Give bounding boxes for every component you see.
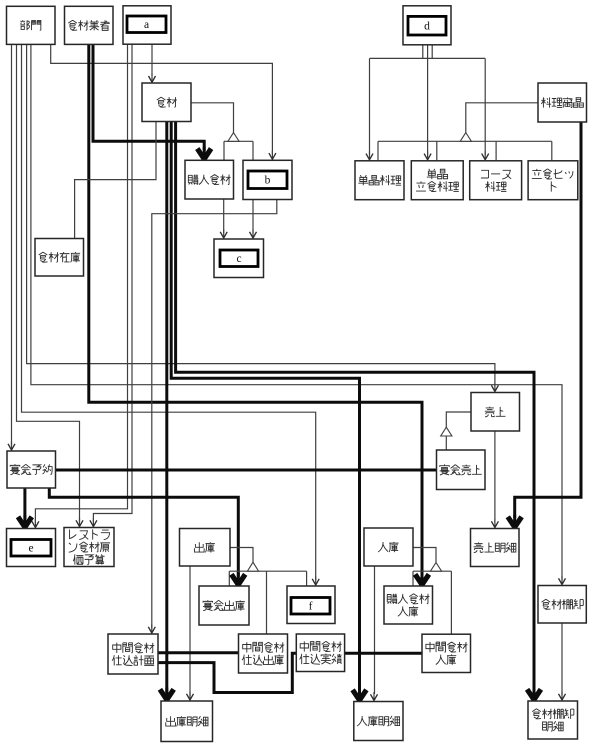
arrowhead (thin) into b (269, 151, 276, 160)
wire 出庫→出庫明細 (189, 566, 191, 697)
wire 宴会予約→e (bold) (23, 488, 26, 519)
wire 出庫 subtype elbow (230, 548, 253, 563)
arrowhead (thin) into コース料理 (482, 151, 489, 160)
wire subtype drop→立食セット (551, 141, 553, 161)
entity box c (214, 239, 264, 278)
arrowhead (thin) into 食材棚卸 (559, 576, 566, 585)
entity box 中間食材仕込出庫 (239, 634, 288, 673)
svg-text:b: b (265, 175, 271, 187)
wire 入庫 subtype elbow (413, 548, 436, 563)
wire b→c (252, 200, 254, 234)
arrowhead (thin) into 出庫明細 (187, 692, 194, 701)
arrowhead (thin) into レストラン食材原価予算 left (76, 518, 83, 527)
entity box 食材 (142, 83, 191, 122)
arrowhead (bold) into 食材棚卸明細 (527, 688, 541, 700)
entity box 食材棚卸明細 (528, 701, 578, 739)
wire subtype drop→f (306, 571, 308, 586)
wire 食材→食材棚卸明細 (bold) (176, 122, 534, 691)
wire 入庫 subtype base (413, 570, 451, 572)
wire subtype drop→単品立食料理 (436, 141, 438, 161)
entity box 中間食材入庫 (422, 634, 471, 672)
arrowhead (bold) into 購入食材入庫 (415, 573, 429, 585)
arrowhead (bold) into 売上明細 (508, 515, 522, 527)
wire d stub left (422, 43, 424, 58)
svg-text:e: e (28, 543, 33, 555)
arrowhead (thin) into 単品立食料理 (424, 151, 431, 160)
arrowhead (thin) into レストラン食材原価予算 right (90, 518, 97, 527)
arrowhead (thin) into f (312, 577, 319, 586)
arrowhead (bold) into 宴会出庫 (231, 573, 245, 585)
wire 購入食材→c (223, 199, 225, 233)
wire 宴会予約→宴会出庫 (bold) (49, 488, 238, 577)
subtype triangle 食材 hierarchy (228, 133, 239, 142)
wire 料理商品 subtype base (378, 140, 552, 142)
entity box 宴会出庫 (199, 586, 249, 625)
wire a→レストラン食材原価予算 (via y514) (93, 43, 132, 522)
arrowhead (thin) into 中間食材仕込計画 (148, 625, 155, 634)
svg-text:c: c (236, 253, 241, 265)
subtype triangle 売上 hierarchy (441, 427, 452, 436)
entity box 食材棚卸 (538, 586, 586, 624)
entity box 購入食材入庫 (384, 586, 433, 624)
wire 食材→食材在庫 (75, 122, 156, 239)
entity box 中間食材仕込計画 (108, 634, 158, 674)
wire 食材→入庫明細 (bold) (171, 122, 359, 693)
entity box 出庫 (180, 529, 231, 567)
entity box 食材業者 (65, 6, 114, 44)
wire d fan horizontal (370, 57, 486, 59)
svg-text:d: d (424, 21, 430, 33)
wire 料理商品 subtype elbow (466, 103, 538, 133)
wire b→中間食材仕込計画 (152, 200, 277, 629)
entity box d (403, 6, 451, 45)
wire 売上 subtype drop→宴会売上 (445, 436, 447, 451)
wire 出庫 subtype base (229, 570, 306, 572)
entity box 料理商品 (538, 83, 587, 122)
wire 売上→売上明細 (494, 431, 496, 523)
entity box a (123, 6, 171, 44)
entity box b (243, 160, 292, 199)
entity box e (7, 529, 56, 567)
svg-text:f: f (309, 601, 313, 613)
wire d→単品立食料理 (427, 43, 429, 155)
entity box 売上明細 (471, 529, 520, 567)
arrowhead (bold) into 購入食材 (197, 147, 211, 159)
arrowhead (bold) into 出庫明細 (160, 688, 174, 700)
wire a→e (via y507) (35, 43, 127, 523)
arrowhead (thin) into c left (220, 230, 227, 239)
wire 仕込計画→仕込出庫 (bold) (158, 651, 239, 654)
wire 入庫→入庫明細 (374, 566, 376, 694)
subtype triangle 入庫 hierarchy (430, 563, 441, 572)
wire 部門→f (via y412) (22, 44, 316, 580)
wire 食材業者→購入食材入庫 (bold) (89, 44, 422, 576)
wire d→コース料理 (484, 58, 486, 154)
entity box 出庫明細 (161, 701, 213, 742)
wire 食材 subtype elbow (191, 103, 234, 133)
wire 仕込実績→中間食材入庫 (bold) (345, 652, 422, 655)
wire 部門→レストラン食材原価予算 (via y420) (17, 44, 80, 522)
wire 食材棚卸→食材棚卸明細 (561, 623, 563, 695)
wire subtype drop→宴会出庫 (228, 571, 230, 586)
wire 宴会予約→宴会売上 (bold) (56, 469, 437, 472)
entity box f (287, 586, 335, 624)
wire 食材業者→購入食材 (bold) (93, 44, 204, 151)
arrowhead (thin) into 宴会予約 (8, 442, 15, 451)
wire subtype drop→中間食材入庫 (450, 571, 452, 634)
subtype triangle 料理商品 hierarchy (460, 133, 471, 142)
wire 料理商品→売上明細 (bold) (515, 122, 581, 518)
entity box 単品料理 (355, 161, 404, 200)
arrowhead (bold) into 入庫明細 (353, 688, 367, 700)
arrowhead (thin) into 食材棚卸明細 (559, 692, 566, 701)
entity box 部門 (7, 6, 56, 44)
entity box コース料理 (470, 161, 522, 200)
wire subtype drop→コース料理 (495, 141, 497, 161)
wire subtype drop→購入食材 (223, 141, 225, 160)
wire 売上 subtype elbow (446, 412, 471, 427)
wire 食材→出庫明細 (bold) (165, 122, 168, 693)
wire subtype drop→中間食材仕込出庫 (266, 571, 268, 634)
wire 部門→宴会予約 (11, 44, 13, 446)
wire 部門→食材棚卸 (via y384) (31, 44, 562, 580)
entity box 宴会売上 (437, 450, 486, 490)
arrowhead (thin) into 食材 (149, 74, 156, 83)
arrowhead (thin) into 単品料理 (366, 151, 373, 160)
svg-text:a: a (144, 19, 149, 31)
entity box 立食セット (528, 161, 578, 200)
entity box 購入食材 (185, 160, 234, 199)
entity box 売上 (471, 393, 520, 432)
wire 部門→売上 (via y364) (27, 44, 495, 387)
entity box 宴会予約 (7, 451, 56, 488)
wire d stub right (431, 43, 433, 58)
entity box 入庫明細 (354, 702, 403, 741)
arrowhead (thin) into e (32, 519, 39, 528)
wire a→食材 (151, 43, 153, 75)
wire subtype drop→b (252, 141, 254, 160)
wire subtype drop→購入食材入庫 (412, 571, 414, 586)
wire 部門→b (via y62) (51, 44, 273, 154)
wire 食材 subtype base (224, 140, 253, 142)
arrowhead (bold) into e (18, 515, 32, 527)
arrowhead (thin) into 売上明細 (491, 519, 498, 528)
arrowhead (thin) into 売上 (491, 383, 498, 392)
entity box レストラン食材原価予算 (64, 528, 114, 567)
wire subtype drop→単品料理 (377, 141, 379, 161)
arrowhead (thin) into 入庫明細 (371, 692, 378, 701)
wire d→単品料理 (369, 58, 371, 154)
entity box 入庫 (364, 528, 413, 566)
arrowhead (thin) into c right (250, 230, 257, 239)
entity box 単品立食料理 (411, 161, 463, 200)
subtype triangle 出庫 hierarchy (247, 562, 258, 571)
wire 仕込計画→仕込実績 (bold detour) (158, 653, 296, 692)
entity box 中間食材仕込実績 (296, 634, 344, 672)
entity box 食材在庫 (35, 239, 84, 277)
